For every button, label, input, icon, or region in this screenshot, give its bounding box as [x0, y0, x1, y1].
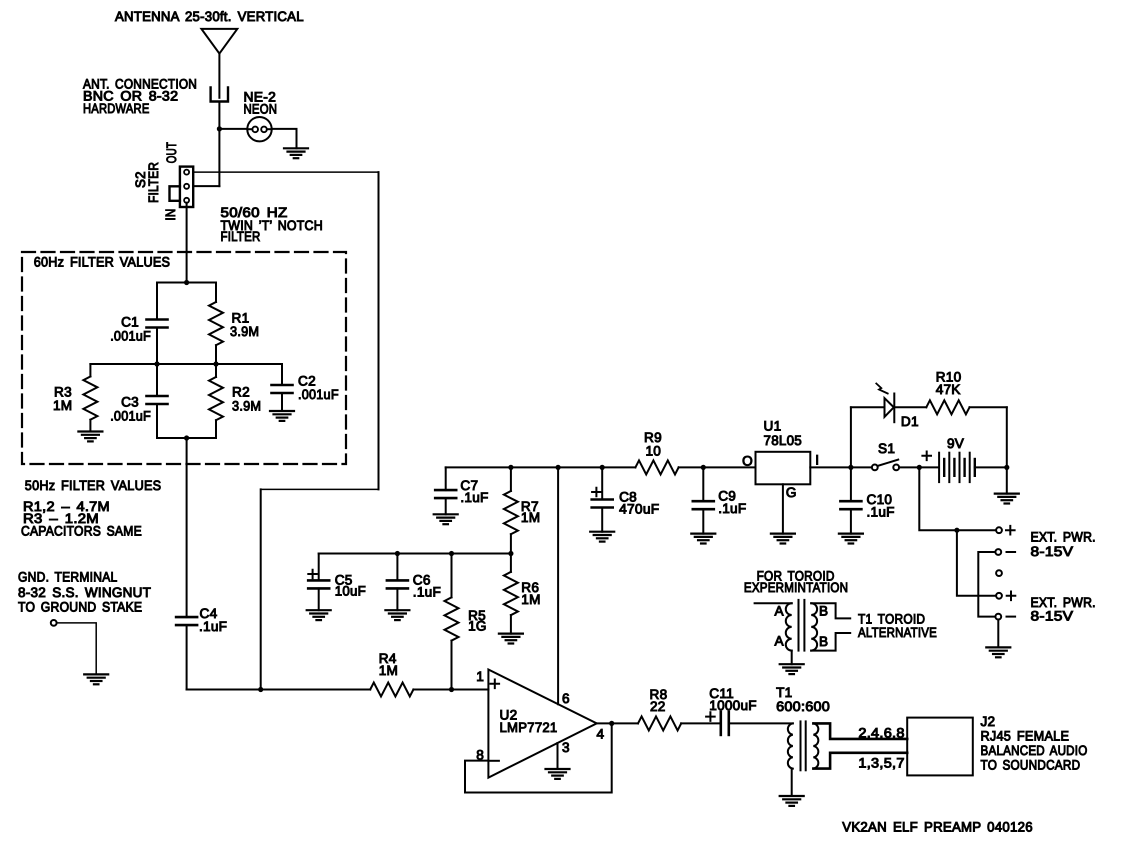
node output/feedback: [609, 721, 614, 726]
capacitor C1: [147, 318, 168, 321]
svg-text:50Hz FILTER VALUES: 50Hz FILTER VALUES: [25, 478, 162, 493]
node pin6 rail: [556, 465, 561, 470]
svg-text:GND. TERMINAL: GND. TERMINAL: [18, 569, 118, 584]
node R5 junction: [449, 687, 454, 692]
node R5 top: [449, 551, 454, 556]
wire filter top: [157, 282, 216, 284]
svg-text:470uF: 470uF: [619, 502, 659, 517]
wire R9 to U1: [679, 466, 756, 468]
svg-text:8-15V: 8-15V: [1031, 608, 1074, 623]
wire antenna lead: [218, 54, 220, 98]
capacitor C9: [693, 500, 714, 503]
LED D1 flash: [876, 384, 887, 394]
wire C1 branch top: [156, 283, 158, 320]
wire R6 top lead: [510, 554, 512, 572]
wire C4 to input rail: [186, 625, 188, 689]
wire C2 branch: [216, 364, 282, 385]
ground (NE-2): [284, 147, 308, 149]
wire +5V rail: [446, 466, 636, 468]
wire R3 to ground: [89, 420, 91, 432]
svg-text:600:600: 600:600: [776, 699, 830, 714]
wire C8 branch: [601, 467, 603, 499]
toroid T1 primary winding: [786, 603, 792, 650]
svg-text:EXPERMINTATION: EXPERMINTATION: [744, 580, 848, 595]
svg-text:4: 4: [597, 727, 605, 742]
svg-text:U1: U1: [764, 419, 782, 434]
toroid T1 primary stub: [755, 602, 792, 604]
node battery+: [917, 465, 922, 470]
transformer T1 secondary: [813, 723, 818, 768]
svg-text:A: A: [775, 604, 785, 619]
svg-text:47K: 47K: [936, 382, 961, 397]
terminal ext1 -: [995, 549, 1001, 555]
wire gnd terminal: [57, 623, 97, 675]
wire C6 to ground: [396, 588, 398, 610]
wire C10 branch: [850, 467, 852, 501]
resistor R10: [926, 400, 969, 414]
wire battery to ground branch: [975, 466, 1007, 468]
resistor R2: [209, 377, 223, 420]
wire filter output down: [186, 438, 188, 617]
toroid secondary stubs: [811, 603, 850, 618]
svg-text:10: 10: [646, 444, 662, 459]
svg-text:C3: C3: [121, 395, 139, 410]
wire C6 branch: [396, 554, 398, 581]
pin 6 supply wire: [557, 467, 559, 704]
svg-text:T1: T1: [776, 685, 792, 700]
neon lamp NE-2: [247, 117, 271, 141]
capacitor C8: [592, 498, 613, 501]
wire mid to R2: [215, 364, 217, 377]
regulator U1: [756, 452, 811, 485]
wire NE-2 to ground: [272, 129, 297, 148]
ground (C6): [385, 609, 409, 611]
wire T1 primary to ground: [791, 769, 793, 796]
connector J1 (BNC): [211, 88, 228, 102]
ground (C2): [270, 410, 294, 412]
svg-text:G: G: [786, 485, 797, 500]
svg-text:I: I: [815, 453, 819, 468]
wire C5 to ground: [318, 588, 320, 610]
svg-text:.001uF: .001uF: [110, 329, 151, 344]
svg-text:LMP7721: LMP7721: [500, 720, 558, 735]
op-amp U2: [488, 670, 596, 778]
wire filter bottom: [157, 437, 216, 439]
resistor R7: [504, 491, 518, 534]
wire op-amp output: [597, 722, 638, 724]
wire C9 branch: [702, 467, 704, 501]
node antenna/NE-2 junction: [217, 126, 222, 131]
capacitor C3: [147, 395, 168, 398]
svg-text:B: B: [819, 634, 828, 649]
svg-text:ALTERNATIVE: ALTERNATIVE: [858, 625, 937, 640]
svg-text:1,3,5,7: 1,3,5,7: [858, 756, 904, 771]
switch S2 body: [180, 167, 193, 207]
svg-text:22: 22: [650, 699, 666, 714]
resistor R5: [445, 597, 459, 640]
dashed box 60Hz filter values: [22, 252, 346, 464]
svg-text:RJ45 FEMALE: RJ45 FEMALE: [981, 729, 1070, 744]
battery BT1 9V: [938, 453, 940, 482]
svg-text:FILTER: FILTER: [221, 229, 261, 244]
capacitor C6: [387, 579, 408, 582]
node C1/C3: [154, 361, 159, 366]
svg-text:1000uF: 1000uF: [709, 698, 757, 713]
wire S1 to battery: [899, 466, 938, 468]
wire input rail: [187, 689, 371, 691]
wire R1 branch top: [215, 283, 217, 303]
svg-text:8-15V: 8-15V: [1031, 544, 1074, 559]
svg-text:1: 1: [476, 669, 484, 684]
resistor R6: [504, 572, 518, 615]
svg-text:NEON: NEON: [244, 102, 278, 117]
wire R6 to ground: [510, 615, 512, 634]
ground (battery): [995, 493, 1019, 495]
node ext pwr 1: [954, 528, 959, 533]
svg-text:ANTENNA 25-30ft. VERTICAL: ANTENNA 25-30ft. VERTICAL: [115, 9, 304, 24]
svg-text:78L05: 78L05: [764, 433, 803, 448]
svg-text:2,4,6,8: 2,4,6,8: [858, 726, 904, 741]
connector J2: [907, 718, 973, 776]
battery polarity: [922, 452, 931, 461]
wire C5 branch: [318, 554, 320, 581]
transformer T1 primary: [788, 723, 793, 768]
svg-text:A: A: [775, 634, 785, 649]
svg-text:B: B: [819, 604, 828, 619]
ground (R6): [499, 632, 523, 634]
toroid T1 secondary winding: [811, 603, 817, 650]
svg-text:.001uF: .001uF: [110, 409, 151, 424]
svg-text:VK2AN ELF PREAMP 040126: VK2AN ELF PREAMP 040126: [842, 819, 1033, 834]
svg-text:1M: 1M: [521, 510, 540, 525]
wire C7 to ground: [445, 498, 447, 514]
ground (gnd terminal): [84, 673, 108, 675]
svg-text:OUT: OUT: [164, 142, 179, 163]
wire T1 secondary bottom to J2: [813, 753, 907, 769]
wire C7 branch: [445, 467, 447, 490]
LED D1: [885, 398, 894, 417]
wire R10 to battery+: [970, 406, 1007, 408]
wire R8 to C11: [681, 722, 721, 724]
node R6/R7: [508, 551, 513, 556]
terminal spare: [996, 570, 1002, 576]
wire ext pwr feed: [919, 467, 996, 530]
resistor R9: [635, 460, 678, 474]
node C6 top: [395, 551, 400, 556]
wire C11 to T1: [729, 722, 793, 724]
svg-text:BALANCED AUDIO: BALANCED AUDIO: [981, 743, 1088, 758]
wire T1 secondary top to J2: [813, 723, 907, 739]
ground (T1): [780, 795, 804, 797]
node filter input: [184, 280, 189, 285]
svg-text:3.9M: 3.9M: [232, 398, 261, 413]
wire ext1 - common: [978, 552, 995, 617]
toroid core: [798, 600, 800, 651]
antenna: [201, 29, 237, 54]
capacitor C4: [176, 616, 197, 619]
svg-text:1M: 1M: [53, 398, 72, 413]
capacitor C7: [435, 489, 456, 492]
wire C1 to mid node: [156, 328, 158, 365]
svg-text:.001uF: .001uF: [298, 387, 339, 402]
svg-text:IN: IN: [163, 209, 178, 221]
wire feedback loop: [465, 723, 612, 792]
resistor R8: [638, 716, 681, 730]
wire C2 to ground: [281, 393, 283, 411]
svg-text:1G: 1G: [468, 618, 487, 633]
wire R2 to bottom node: [215, 420, 217, 438]
svg-text:.1uF: .1uF: [413, 585, 441, 600]
capacitor C10: [840, 500, 861, 503]
wire C10 to ground: [850, 509, 852, 533]
svg-text:J2: J2: [981, 714, 996, 729]
op-amp - symbol: [490, 760, 499, 762]
svg-text:.1uF: .1uF: [199, 619, 227, 634]
ground (C8): [590, 531, 614, 533]
ground (op-amp pin 3): [546, 768, 570, 770]
wire mid to C3: [156, 364, 158, 396]
capacitor C11: [719, 712, 722, 735]
wire R5 top lead: [451, 554, 453, 598]
svg-text:HARDWARE: HARDWARE: [83, 101, 150, 116]
svg-text:C1: C1: [121, 315, 139, 330]
ground (ext pwr): [986, 646, 1010, 648]
svg-text:.1uF: .1uF: [460, 490, 488, 505]
ground (C5): [307, 609, 331, 611]
ground (toroid): [780, 663, 804, 665]
svg-text:6: 6: [562, 691, 570, 706]
capacitor C8 polarity: [592, 488, 601, 497]
wire mid rail: [90, 363, 216, 365]
svg-text:1M: 1M: [379, 663, 398, 678]
terminal ext2 +: [996, 593, 1002, 599]
wire R3 branch: [89, 364, 91, 377]
node C9: [701, 465, 706, 470]
wire R7 bottom: [510, 534, 512, 553]
resistor R4: [370, 683, 413, 697]
wire S2 IN to filter: [186, 203, 188, 283]
wire bias rail: [319, 553, 511, 555]
svg-text:8-32 S.S. WINGNUT: 8-32 S.S. WINGNUT: [18, 585, 151, 600]
pin 3 wire: [557, 743, 559, 769]
svg-text:3.9M: 3.9M: [230, 324, 259, 339]
node filter output: [184, 435, 189, 440]
node battery-: [1004, 465, 1009, 470]
wire R5 bottom lead: [451, 641, 453, 690]
wire C3 to bottom node: [156, 404, 158, 438]
svg-text:.1uF: .1uF: [867, 504, 895, 519]
capacitor C5 polarity: [308, 570, 317, 579]
switch S2 actuator bracket: [170, 186, 180, 201]
op-amp + symbol: [491, 680, 500, 689]
resistor R3: [83, 377, 97, 420]
wire to NE-2: [219, 128, 247, 130]
switch S1: [872, 465, 878, 471]
svg-text:3: 3: [562, 740, 570, 755]
wire S2 OUT filter-bypass: [193, 171, 378, 173]
capacitor C11 polarity: [706, 712, 715, 721]
svg-text:TO SOUNDCARD: TO SOUNDCARD: [981, 758, 1081, 773]
wire LED branch up: [850, 407, 852, 467]
wire ext2 + feed: [957, 530, 996, 596]
svg-text:TO GROUND STAKE: TO GROUND STAKE: [18, 599, 142, 614]
svg-text:O: O: [742, 454, 753, 469]
capacitor C5: [308, 579, 329, 582]
wire U1 to S1: [810, 466, 872, 468]
wire toroid primary to ground: [791, 651, 793, 665]
node C10/LED branch: [848, 465, 853, 470]
svg-text:CAPACITORS SAME: CAPACITORS SAME: [21, 523, 142, 538]
terminal ext1 +: [996, 527, 1002, 533]
gnd terminal: [51, 620, 57, 626]
ground (C7): [434, 513, 458, 515]
node R1/R2: [213, 361, 218, 366]
wire U1 ground pin: [782, 484, 784, 533]
wire BNC to S2: [218, 102, 220, 186]
svg-text:1M: 1M: [521, 592, 540, 607]
wire R1 to mid node: [215, 345, 217, 364]
svg-text:R2: R2: [232, 385, 250, 400]
ground (U1): [771, 532, 795, 534]
svg-text:EXT. PWR.: EXT. PWR.: [1031, 530, 1096, 545]
ground (C10): [839, 532, 863, 534]
svg-text:9V: 9V: [947, 436, 964, 451]
wire LED to R10: [894, 406, 926, 408]
transformer T1 core: [800, 721, 802, 770]
svg-text:60Hz FILTER VALUES: 60Hz FILTER VALUES: [34, 255, 171, 270]
capacitor C2: [272, 384, 293, 387]
terminal ext2 -: [995, 614, 1001, 620]
node R7 top: [508, 465, 513, 470]
node bypass junction: [258, 687, 263, 692]
wire R4 to op-amp: [413, 689, 488, 691]
svg-text:.1uF: .1uF: [718, 501, 746, 516]
svg-text:FILTER: FILTER: [146, 162, 161, 203]
ground (R3): [78, 430, 102, 432]
wire C9 to ground: [702, 509, 704, 533]
node C8: [600, 465, 605, 470]
wire ext2 - to ground: [997, 620, 999, 648]
wire battery- down: [1006, 467, 1008, 493]
svg-text:10uF: 10uF: [335, 583, 366, 598]
wire R7 top: [510, 467, 512, 491]
wire C8 to ground: [601, 508, 603, 532]
svg-text:S1: S1: [878, 441, 895, 456]
svg-text:D1: D1: [901, 414, 919, 429]
ground (C9): [691, 532, 715, 534]
resistor R1: [209, 302, 223, 345]
